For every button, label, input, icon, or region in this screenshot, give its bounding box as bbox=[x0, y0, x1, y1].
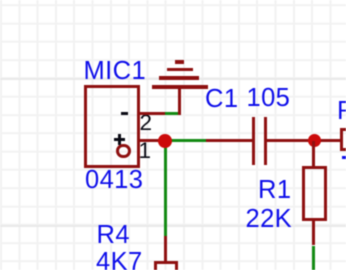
pin name - (pin 2) bbox=[121, 112, 128, 115]
label MIC1 bbox=[84, 59, 147, 85]
wire pin2 to ground (green) bbox=[165, 112, 178, 115]
resistor R1 body bbox=[302, 166, 327, 222]
pin 2 lead (red) bbox=[140, 112, 165, 115]
value 105 bbox=[247, 86, 291, 112]
wire junction1 to C1 (green) bbox=[165, 139, 206, 142]
label R (clipped) bbox=[337, 99, 346, 125]
wire junction2 down to R1 bbox=[312, 141, 315, 166]
pin number 1 bbox=[139, 140, 152, 163]
ground bar 1 (smallest) bbox=[175, 60, 184, 63]
ground bar 3 bbox=[159, 76, 200, 80]
label R4 bbox=[97, 223, 130, 249]
ground stem bbox=[178, 86, 182, 115]
label C1 bbox=[205, 87, 238, 113]
capacitor C1 plate 1 bbox=[252, 117, 255, 165]
junction dot 1 bbox=[158, 134, 172, 148]
value 22K bbox=[246, 207, 293, 233]
resistor R4 body (clipped at bottom) bbox=[154, 261, 179, 270]
label R1 bbox=[258, 178, 291, 204]
R4 top lead (red) bbox=[164, 236, 167, 261]
grid darker line h1 bbox=[0, 78, 346, 80]
pin 1 lead (red) bbox=[140, 139, 165, 142]
value 4K7 bbox=[96, 250, 143, 270]
ground bar 2 bbox=[167, 68, 193, 71]
R1 bottom lead (red) bbox=[312, 221, 315, 245]
pin name + (pin 1) horizontal bbox=[114, 138, 125, 141]
resistor R2 body (clipped at right edge) bbox=[340, 128, 346, 151]
wire green down from junction1 bbox=[164, 142, 168, 236]
grid darker line h2 bbox=[0, 225, 346, 227]
blue text fragment bottom right bbox=[342, 156, 346, 159]
capacitor C1 left lead bbox=[206, 139, 253, 142]
ground bar 4 (widest) bbox=[152, 85, 208, 89]
value 0413 bbox=[85, 168, 143, 194]
junction dot 2 bbox=[308, 134, 321, 147]
pin number 2 bbox=[140, 112, 153, 135]
capacitor C1 right lead / wire to R2 bbox=[267, 139, 340, 142]
microphone MIC1 body bbox=[84, 85, 140, 168]
pin name + (pin 1) vertical bbox=[118, 134, 121, 145]
R1 bottom wire (green) bbox=[312, 246, 315, 270]
capacitor C1 plate 2 bbox=[264, 117, 267, 165]
mic circle symbol bbox=[116, 144, 130, 158]
